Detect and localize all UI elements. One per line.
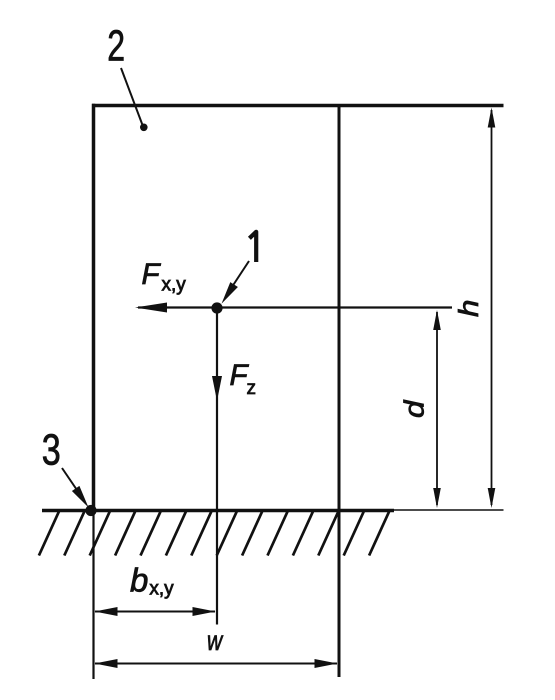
dimension d bottom arrow [433, 488, 441, 508]
leader 3 arrowhead [72, 486, 89, 508]
body right edge [338, 104, 341, 677]
dimension w left arrow [95, 659, 118, 668]
dimension h top arrow [488, 108, 496, 128]
ground line thin extension [394, 509, 504, 511]
dimension w right arrow [315, 659, 338, 668]
dimension w line [95, 663, 337, 665]
force line Fx,y horizontal [138, 306, 452, 308]
arrowhead Fz [212, 376, 222, 401]
body left edge [92, 104, 96, 511]
point 3 dot [85, 505, 96, 516]
point 2 dot [140, 124, 148, 132]
leader line 2 [121, 68, 143, 125]
dimension h bottom arrow [488, 488, 496, 508]
svg-text:2: 2 [107, 22, 125, 71]
leader line 1 [226, 261, 249, 296]
svg-text:h: h [454, 300, 485, 317]
dimension b right arrow [193, 607, 216, 616]
force line Fz vertical / extension to b dimension [216, 308, 218, 625]
ground hatching [14, 511, 416, 556]
svg-text:w: w [207, 625, 224, 656]
arrowhead Fx,y [135, 303, 167, 313]
leader line 3 [62, 468, 79, 493]
point 1 dot [211, 302, 222, 313]
svg-text:d: d [399, 399, 430, 418]
label d [399, 399, 430, 418]
dimension d line [436, 312, 438, 505]
dimension b line [95, 611, 215, 613]
left extension line below ground [92, 511, 94, 679]
label 1 [249, 232, 256, 262]
ground line thick [42, 509, 394, 513]
svg-text:3: 3 [42, 426, 61, 475]
leader 1 arrowhead [222, 282, 238, 304]
dimension d top arrow [433, 310, 441, 330]
dimension h line [491, 110, 493, 505]
label h [454, 300, 485, 317]
dimension b left arrow [95, 607, 118, 616]
body top edge [92, 104, 504, 108]
